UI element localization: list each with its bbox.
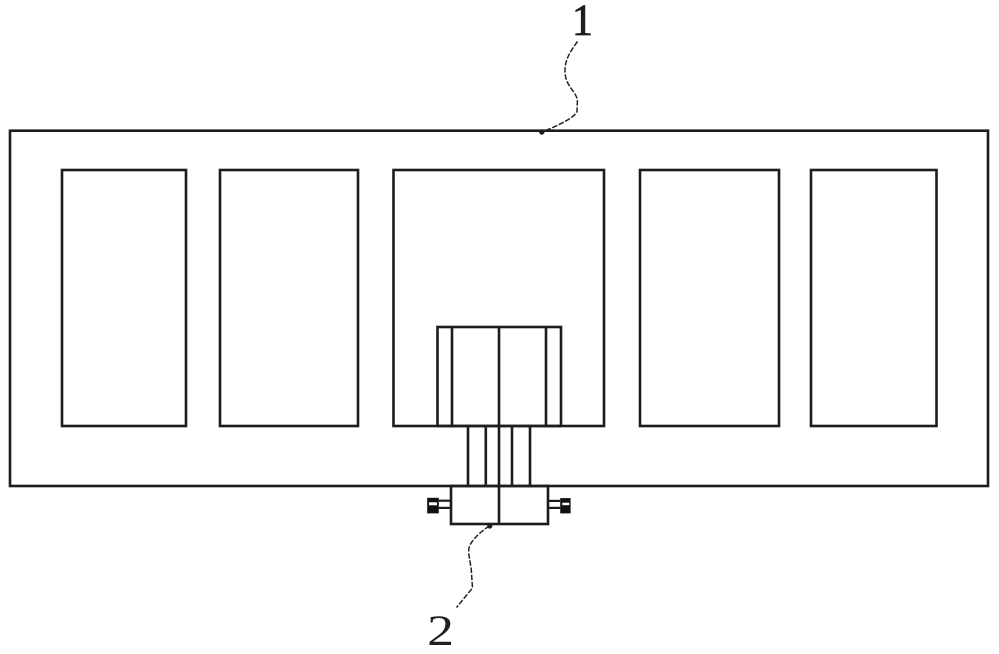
svg-text:1: 1 — [572, 0, 593, 45]
svg-text:2: 2 — [427, 606, 454, 654]
